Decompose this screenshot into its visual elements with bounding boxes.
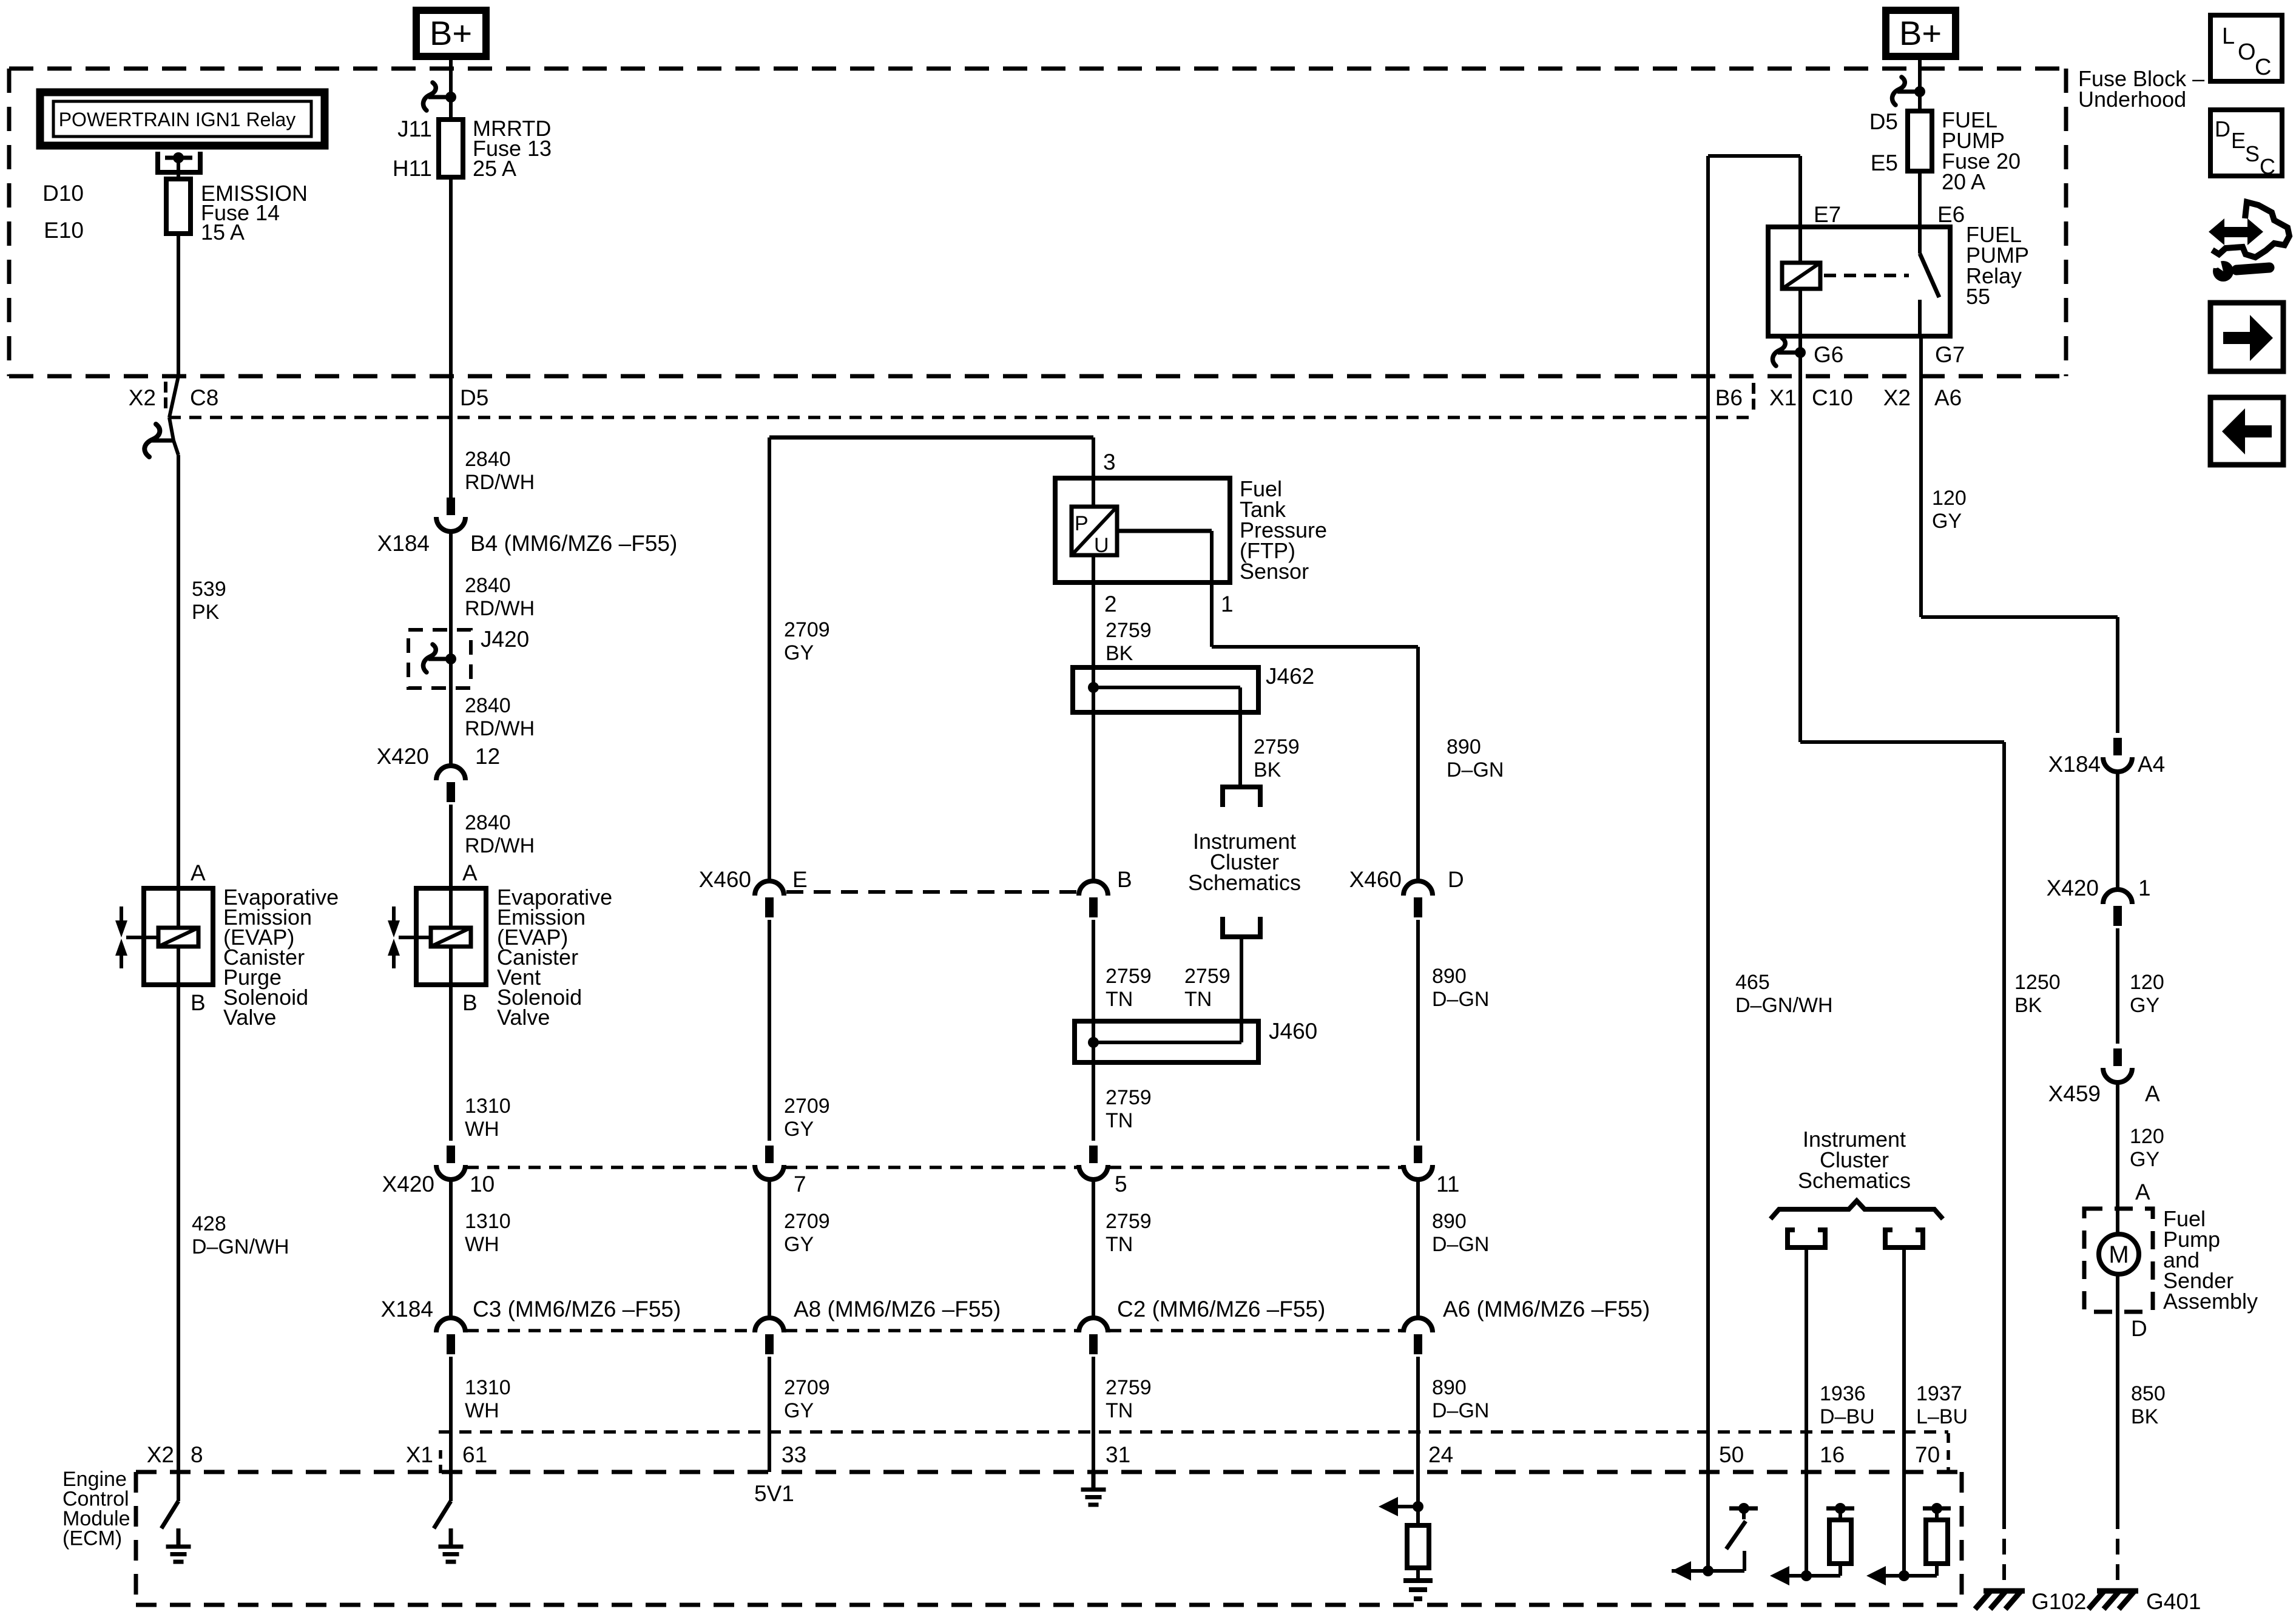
svg-text:X1: X1 — [406, 1442, 433, 1467]
wire 120 GY #3 — [2116, 928, 2119, 1044]
svg-text:BK: BK — [1254, 758, 1281, 781]
separator colon B6/X1 — [1752, 383, 1755, 394]
svg-text:Valve: Valve — [497, 1005, 550, 1030]
svg-text:428: 428 — [192, 1212, 226, 1235]
wire 890 D-GN #4 — [1416, 1357, 1420, 1507]
svg-text:C: C — [2260, 154, 2275, 179]
svg-text:20 A: 20 A — [1942, 169, 1985, 194]
wire 2709 GY #2 — [768, 920, 771, 1141]
svg-text:50: 50 — [1719, 1442, 1744, 1467]
svg-text:TN: TN — [1106, 1233, 1133, 1256]
svg-text:2840: 2840 — [465, 574, 511, 597]
svg-text:10: 10 — [470, 1172, 495, 1197]
connector X420 11 — [1414, 1146, 1422, 1163]
wire 120 GY #2 — [2116, 772, 2119, 890]
wire 850 BK — [2116, 1274, 2119, 1513]
svg-text:TN: TN — [1106, 1399, 1133, 1422]
svg-text:E5: E5 — [1871, 150, 1898, 175]
svg-text:B4 (MM6/MZ6 –F55): B4 (MM6/MZ6 –F55) — [470, 531, 677, 556]
wire 1937 L-BU — [1902, 1247, 1906, 1576]
svg-text:2759: 2759 — [1184, 965, 1231, 988]
svg-text:E: E — [792, 867, 808, 892]
svg-text:WH: WH — [465, 1399, 499, 1422]
switch to ground at ECM pin 8 — [177, 1472, 180, 1501]
connector X420 12 — [436, 766, 465, 780]
ground at ECM pin 31 — [1092, 1471, 1096, 1490]
icon DESC box — [2210, 110, 2282, 176]
svg-text:Schematics: Schematics — [1188, 870, 1301, 895]
svg-text:D–GN: D–GN — [1432, 1399, 1489, 1422]
svg-text:B+: B+ — [430, 14, 472, 52]
svg-text:GY: GY — [784, 1118, 814, 1141]
svg-text:A: A — [191, 860, 206, 885]
connector X184 A6 — [1403, 1318, 1433, 1332]
svg-text:B: B — [191, 990, 206, 1015]
svg-text:D–BU: D–BU — [1820, 1405, 1875, 1428]
terminal hook at B+ right — [1897, 90, 1920, 94]
svg-text:C10: C10 — [1812, 385, 1853, 410]
power symbol B+ (right) — [1886, 10, 1956, 56]
svg-text:3: 3 — [1103, 450, 1116, 474]
splice J462 — [1073, 667, 1258, 712]
svg-text:B: B — [1117, 867, 1132, 892]
svg-text:X2: X2 — [1883, 385, 1911, 410]
svg-text:RD/WH: RD/WH — [465, 717, 535, 740]
wire 1936 D-BU — [1805, 1247, 1808, 1576]
svg-text:TN: TN — [1106, 988, 1133, 1011]
svg-text:2759: 2759 — [1106, 965, 1152, 988]
svg-text:L–BU: L–BU — [1916, 1405, 1968, 1428]
svg-text:C8: C8 — [190, 385, 218, 410]
svg-text:X184: X184 — [381, 1297, 433, 1322]
svg-text:5V1: 5V1 — [754, 1481, 794, 1506]
svg-text:A: A — [2145, 1081, 2160, 1106]
svg-text:70: 70 — [1915, 1442, 1940, 1467]
svg-text:G401: G401 — [2146, 1589, 2201, 1614]
svg-text:D: D — [2215, 116, 2230, 141]
svg-text:WH: WH — [465, 1233, 499, 1256]
icon forward arrow box — [2210, 303, 2283, 371]
svg-text:E: E — [2231, 128, 2246, 153]
svg-text:2759: 2759 — [1106, 619, 1152, 642]
svg-text:15 A: 15 A — [201, 220, 245, 245]
svg-text:GY: GY — [2130, 994, 2159, 1017]
connector X420 7 — [765, 1146, 774, 1163]
svg-text:D5: D5 — [460, 385, 488, 410]
motor M fuel pump — [2099, 1234, 2139, 1274]
wire pin 2 down — [1092, 555, 1095, 667]
connector X184 A4 — [2113, 738, 2122, 755]
svg-text:RD/WH: RD/WH — [465, 597, 535, 620]
svg-text:1310: 1310 — [465, 1210, 511, 1233]
svg-text:BK: BK — [2014, 994, 2042, 1017]
relay output bracket with junction — [155, 152, 160, 172]
svg-text:X2: X2 — [147, 1442, 174, 1467]
svg-text:X460: X460 — [1349, 867, 1402, 892]
wire pin1 to 890 column — [1212, 645, 1418, 649]
wire FTP pin3 feed — [769, 436, 1093, 440]
resistor at ECM pin 24 — [1416, 1507, 1420, 1525]
svg-text:31: 31 — [1106, 1442, 1130, 1467]
svg-text:25 A: 25 A — [473, 156, 516, 181]
wire E7 loop to 465 feed — [1798, 156, 1802, 227]
wire slant through connector — [169, 376, 178, 417]
svg-text:S: S — [2245, 141, 2260, 166]
wire fuse13 to X184 B4 — [449, 177, 453, 499]
svg-text:120: 120 — [2130, 971, 2164, 994]
switch to ground at ECM pin 61 — [449, 1472, 453, 1501]
connector row X184 dashed line — [467, 1329, 754, 1332]
svg-text:2709: 2709 — [784, 1210, 830, 1233]
dangling connector 1936 — [1785, 1227, 1790, 1247]
svg-text:B+: B+ — [1899, 14, 1942, 52]
svg-text:H11: H11 — [393, 156, 432, 181]
svg-text:D–GN/WH: D–GN/WH — [1735, 994, 1833, 1017]
wire 2759 TN to X184 C2 — [1092, 1180, 1095, 1318]
icon LOC box — [2210, 15, 2282, 81]
svg-text:890: 890 — [1432, 965, 1467, 988]
power symbol B+ (left) — [416, 10, 486, 56]
wire 2759 TN below J460 — [1092, 1062, 1095, 1141]
relay coil — [1782, 263, 1820, 289]
wire 2709 GY #4 — [768, 1357, 771, 1472]
ECM connector dashed line X1/X2 — [439, 1430, 1948, 1434]
relay FUEL PUMP Relay 55 box — [1768, 227, 1950, 336]
svg-text:A6 (MM6/MZ6 –F55): A6 (MM6/MZ6 –F55) — [1443, 1297, 1650, 1322]
svg-text:RD/WH: RD/WH — [465, 834, 535, 857]
terminal hook at G6 — [1778, 351, 1800, 355]
svg-text:X460: X460 — [699, 867, 751, 892]
svg-text:1310: 1310 — [465, 1376, 511, 1399]
svg-text:2709: 2709 — [784, 1376, 830, 1399]
splice J460 — [1075, 1021, 1258, 1062]
wire 1310 WH #3 — [449, 1357, 453, 1472]
svg-text:2759: 2759 — [1254, 735, 1300, 758]
wire dashed to G102 — [2002, 1513, 2006, 1585]
wire 2759 BK to X460 B — [1092, 712, 1095, 881]
wire B+ left down — [449, 56, 453, 120]
wire 2759 TN from cluster — [1240, 937, 1243, 1042]
wire 2759 BK splice branch — [1238, 712, 1242, 787]
svg-text:X420: X420 — [382, 1172, 434, 1197]
wire 890 D-GN #3 — [1416, 1180, 1420, 1318]
wire 2709 GY #3 — [768, 1180, 771, 1318]
svg-text:GY: GY — [2130, 1148, 2159, 1171]
svg-text:2759: 2759 — [1106, 1376, 1152, 1399]
svg-text:G7: G7 — [1935, 342, 1965, 367]
resistor and arrow at ECM pin 70 — [1899, 1570, 1909, 1581]
wire to EVAP vent — [449, 805, 453, 888]
connector X184 A8 — [755, 1318, 784, 1332]
fuse FUEL PUMP Fuse 20 20 A — [1908, 111, 1932, 171]
svg-text:POWERTRAIN IGN1 Relay: POWERTRAIN IGN1 Relay — [59, 109, 296, 130]
connector X460 E — [755, 881, 784, 896]
connector X184 C2 — [1079, 1318, 1108, 1332]
relay link dashed — [1824, 274, 1909, 277]
svg-text:1936: 1936 — [1820, 1382, 1866, 1405]
terminal hook at B+ left — [428, 95, 451, 100]
wire G7 down — [1919, 336, 1923, 617]
svg-text:11: 11 — [1436, 1172, 1459, 1197]
svg-text:G102: G102 — [2031, 1589, 2087, 1614]
svg-text:D10: D10 — [42, 181, 84, 206]
svg-text:D: D — [1448, 867, 1464, 892]
svg-text:7: 7 — [794, 1172, 806, 1197]
svg-text:X184: X184 — [2048, 752, 2101, 777]
svg-text:J11: J11 — [397, 116, 432, 141]
svg-text:D–GN: D–GN — [1432, 1233, 1489, 1256]
svg-text:24: 24 — [1428, 1442, 1453, 1467]
svg-text:D–GN: D–GN — [1432, 988, 1489, 1011]
svg-text:2759: 2759 — [1106, 1086, 1152, 1109]
svg-text:TN: TN — [1184, 988, 1212, 1011]
svg-text:1310: 1310 — [465, 1095, 511, 1118]
fuse EMISSION Fuse 14 15 A — [166, 179, 191, 234]
wire 1310 WH #2 — [449, 1180, 453, 1318]
wire pin 3 stub — [1092, 437, 1095, 507]
junction and arrow at ECM pin 24 — [1413, 1501, 1423, 1512]
svg-text:M: M — [2109, 1241, 2129, 1268]
svg-text:GY: GY — [784, 1399, 814, 1422]
svg-text:C3 (MM6/MZ6 –F55): C3 (MM6/MZ6 –F55) — [473, 1297, 681, 1322]
switch and arrow at ECM pin 50 — [1703, 1565, 1714, 1576]
icon back arrow box — [2210, 397, 2283, 465]
svg-text:(ECM): (ECM) — [62, 1527, 122, 1550]
ground G401 — [2097, 1588, 2138, 1594]
fuse block - underhood dashed border — [9, 67, 2066, 71]
svg-text:539: 539 — [192, 578, 226, 601]
wire 539 PK — [177, 455, 180, 888]
solenoid EVAP canister vent valve — [416, 888, 486, 985]
svg-text:2840: 2840 — [465, 448, 511, 471]
valve arrows (purge) — [120, 906, 123, 923]
module Engine Control Module (ECM) dashed box — [136, 1470, 1962, 1474]
wire pin 1 inside box — [1117, 529, 1212, 533]
svg-text:TN: TN — [1106, 1109, 1133, 1132]
svg-text:D–GN/WH: D–GN/WH — [192, 1235, 289, 1258]
connector dashed line X1/X2 under fuse block — [169, 416, 1751, 419]
connector X420 10 — [447, 1146, 455, 1163]
svg-text:Valve: Valve — [223, 1005, 276, 1030]
svg-text:890: 890 — [1432, 1376, 1467, 1399]
svg-text:B: B — [462, 990, 478, 1015]
svg-text:850: 850 — [2131, 1382, 2166, 1405]
svg-text:16: 16 — [1820, 1442, 1845, 1467]
relay POWERTRAIN IGN1 Relay box — [40, 92, 325, 146]
wire G6 down — [1798, 336, 1802, 742]
svg-text:GY: GY — [1932, 510, 1962, 533]
wire 890 D-GN #2 — [1416, 920, 1420, 1141]
icon arrows and wrench — [2213, 261, 2234, 282]
svg-text:55: 55 — [1966, 284, 1990, 309]
svg-text:2840: 2840 — [465, 694, 511, 717]
svg-text:C2 (MM6/MZ6 –F55): C2 (MM6/MZ6 –F55) — [1117, 1297, 1325, 1322]
svg-text:890: 890 — [1447, 735, 1481, 758]
svg-text:1: 1 — [1221, 592, 1234, 616]
terminal hook at C8 — [150, 439, 174, 443]
splice J420 dashed box — [408, 630, 471, 688]
ground under pin 24 resistor — [1403, 1578, 1433, 1583]
svg-text:D5: D5 — [1869, 109, 1898, 134]
svg-text:WH: WH — [465, 1118, 499, 1141]
svg-text:G6: G6 — [1814, 342, 1843, 367]
svg-text:C: C — [2255, 55, 2271, 80]
svg-text:33: 33 — [782, 1442, 806, 1467]
svg-text:Schematics: Schematics — [1798, 1168, 1911, 1193]
svg-text:12: 12 — [475, 744, 500, 769]
svg-text:Underhood: Underhood — [2078, 87, 2186, 112]
svg-text:BK: BK — [2131, 1405, 2159, 1428]
svg-text:Sensor: Sensor — [1240, 559, 1309, 584]
svg-text:2759: 2759 — [1106, 1210, 1152, 1233]
connector X460 B — [1079, 881, 1108, 896]
svg-text:GY: GY — [784, 641, 814, 664]
wire B+ right down — [1918, 56, 1922, 111]
connector X459 A — [2113, 1048, 2122, 1066]
resistor and arrow at ECM pin 16 — [1801, 1570, 1812, 1581]
connector X420 1 — [2103, 890, 2132, 904]
svg-text:E10: E10 — [44, 218, 84, 243]
brace over cluster wires — [1771, 1201, 1943, 1219]
wire 465 D-GN/WH — [1706, 156, 1710, 1571]
svg-text:X2: X2 — [129, 385, 156, 410]
wire 428 D-GN/WH — [177, 985, 180, 1472]
fuse MRRTD Fuse 13 25 A — [439, 120, 463, 177]
terminal hook in J420 — [428, 657, 451, 661]
dangling connector to instrument cluster (from J462) — [1220, 785, 1263, 789]
wire 120 GY #4 — [2116, 1082, 2119, 1234]
svg-text:O: O — [2238, 39, 2256, 65]
svg-text:5: 5 — [1115, 1172, 1127, 1197]
svg-text:120: 120 — [2130, 1125, 2164, 1148]
svg-text:X420: X420 — [377, 744, 429, 769]
svg-text:D: D — [2131, 1316, 2147, 1341]
svg-text:X184: X184 — [377, 531, 430, 556]
svg-text:J462: J462 — [1266, 664, 1314, 689]
dangling connector from instrument cluster — [1220, 917, 1225, 937]
svg-text:X459: X459 — [2048, 1081, 2101, 1106]
connector X184 C3 — [436, 1318, 465, 1332]
svg-text:61: 61 — [462, 1442, 487, 1467]
svg-text:2840: 2840 — [465, 811, 511, 834]
svg-text:J460: J460 — [1269, 1019, 1317, 1044]
separator colon X2/C8 — [164, 382, 167, 393]
wire to J420 — [449, 532, 453, 766]
wire col3 ends at ECM (5V1) — [768, 1357, 771, 1472]
P/U transducer symbol — [1072, 507, 1117, 555]
sensor Fuel Tank Pressure (FTP) box — [1055, 478, 1230, 582]
svg-text:B6: B6 — [1715, 385, 1743, 410]
connector row X420 dashed line — [467, 1166, 754, 1169]
ground G102 — [1984, 1588, 2025, 1594]
svg-text:2709: 2709 — [784, 1095, 830, 1118]
svg-text:8: 8 — [191, 1442, 203, 1467]
svg-text:X1: X1 — [1769, 385, 1797, 410]
svg-text:1937: 1937 — [1916, 1382, 1962, 1405]
wire 1310 WH — [449, 985, 453, 1141]
wire C10 to 1250 BK — [1800, 740, 2004, 744]
svg-text:1250: 1250 — [2014, 971, 2061, 994]
wire fuse14 to connector X2-C8 — [177, 234, 180, 376]
svg-text:BK: BK — [1106, 642, 1133, 665]
svg-text:2: 2 — [1104, 592, 1117, 616]
svg-text:J420: J420 — [481, 627, 529, 652]
svg-text:A4: A4 — [2138, 752, 2165, 777]
svg-text:PK: PK — [192, 601, 220, 624]
wire 2759 TN to ECM 31 — [1092, 1357, 1095, 1473]
svg-text:L: L — [2222, 24, 2235, 49]
svg-text:A6: A6 — [1934, 385, 1962, 410]
svg-text:P: P — [1075, 512, 1089, 535]
svg-text:A: A — [2135, 1180, 2150, 1204]
svg-text:E7: E7 — [1814, 202, 1841, 227]
svg-text:A: A — [462, 860, 478, 885]
svg-text:U: U — [1094, 534, 1109, 557]
relay switch blade — [1918, 227, 1922, 254]
connector X184 B4 — [447, 498, 455, 515]
connector X460 D — [1403, 881, 1433, 896]
svg-text:890: 890 — [1432, 1210, 1467, 1233]
module Fuel Pump and Sender Assembly dashed box — [2084, 1209, 2153, 1312]
wire fuse20 to relay E6 — [1918, 171, 1922, 227]
svg-text:D–GN: D–GN — [1447, 758, 1504, 781]
dashed link X460 E-B — [786, 890, 1077, 894]
solenoid EVAP canister purge valve — [144, 888, 213, 985]
svg-text:GY: GY — [784, 1233, 814, 1256]
svg-text:1: 1 — [2138, 876, 2151, 900]
wire relay output to fuse 14 — [177, 158, 180, 179]
svg-text:E6: E6 — [1937, 202, 1965, 227]
valve arrows (vent) — [392, 906, 396, 923]
wire 2759 TN to J460 — [1092, 920, 1095, 1021]
wire dashed to G401 — [2116, 1513, 2119, 1585]
svg-text:Assembly: Assembly — [2163, 1289, 2258, 1314]
svg-text:2709: 2709 — [784, 618, 830, 641]
svg-text:RD/WH: RD/WH — [465, 471, 535, 494]
svg-text:465: 465 — [1735, 971, 1770, 994]
svg-text:120: 120 — [1932, 487, 1967, 510]
connector X420 5 — [1089, 1146, 1098, 1163]
dangling connector 1937 — [1883, 1227, 1888, 1247]
svg-text:A8 (MM6/MZ6 –F55): A8 (MM6/MZ6 –F55) — [794, 1297, 1001, 1322]
svg-text:X420: X420 — [2047, 876, 2099, 900]
